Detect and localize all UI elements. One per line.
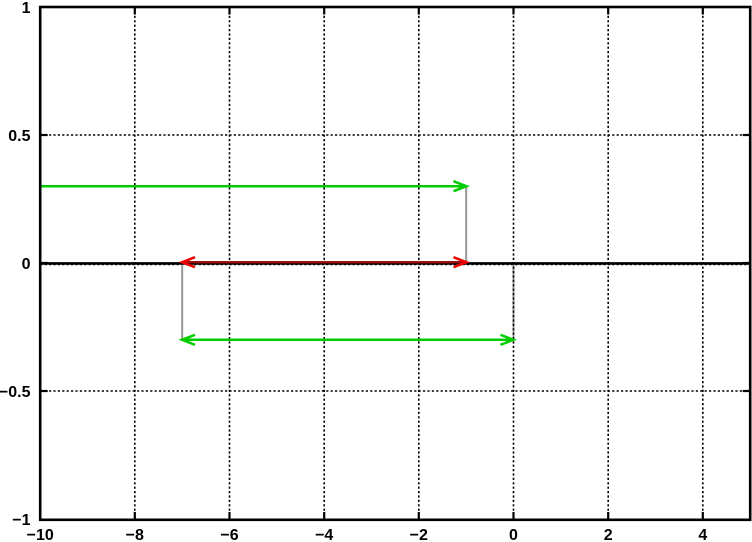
x tick bottom x=-2: [418, 512, 420, 520]
y tick right y=0.5: [743, 134, 751, 136]
gridline x=-8: [134, 7, 136, 520]
svg-text:−10: −10: [27, 527, 54, 542]
svg-text:−8: −8: [126, 527, 144, 542]
x tick bottom x=-4: [323, 512, 325, 520]
svg-text:1: 1: [22, 0, 31, 17]
gridline x=-4: [323, 7, 325, 520]
x tick top x=4: [702, 7, 704, 15]
green arrowhead right at (0,-0.3): [501, 335, 514, 345]
red arrowhead right at (-1,0): [454, 257, 467, 267]
svg-text:−4: −4: [315, 527, 333, 542]
green arrow shaft y=0.3 from x=-10 to x=-1: [40, 185, 464, 188]
gridline x=0 (over gray): [513, 7, 515, 520]
green arrow shaft y=-0.3 from x=-7 to x=0: [182, 339, 513, 342]
x tick top x=0: [512, 7, 514, 15]
gridline x=-6: [229, 7, 231, 520]
svg-text:−6: −6: [220, 527, 238, 542]
gridline y=0.5: [40, 134, 750, 136]
x-axis zero line y=0: [40, 262, 750, 265]
svg-text:0.5: 0.5: [8, 128, 30, 145]
x tick top x=-4: [323, 7, 325, 15]
y tick right y=0: [743, 262, 751, 264]
x tick top x=-6: [228, 7, 230, 15]
x tick bottom x=4: [702, 512, 704, 520]
gridline y=0: [40, 264, 750, 266]
gridline x=4: [702, 7, 704, 520]
svg-text:−2: −2: [410, 527, 428, 542]
svg-text:0: 0: [22, 256, 31, 273]
y tick right y=-0.5: [743, 390, 751, 392]
svg-text:−0.5: −0.5: [0, 384, 31, 401]
x tick top x=-8: [134, 7, 136, 15]
x tick top x=2: [607, 7, 609, 15]
green arrowhead left at (-7,-0.3): [182, 335, 195, 345]
x tick top x=-2: [418, 7, 420, 15]
gridline x=2: [607, 7, 609, 520]
gray connector at x=-7 from y=0 to y=-0.3: [181, 263, 183, 340]
svg-text:0: 0: [509, 527, 518, 542]
gridline x=-2: [418, 7, 420, 520]
x tick bottom x=-8: [134, 512, 136, 520]
x tick bottom x=-6: [228, 512, 230, 520]
gridline y=-0.5: [40, 390, 750, 392]
gray connector at x=-1 from y=0.3 to y=0: [465, 186, 467, 263]
red arrow shaft y=0 from x=-7 to x=-1: [183, 261, 466, 263]
x tick bottom x=2: [607, 512, 609, 520]
y tick left y=0: [40, 262, 48, 264]
y tick left y=0.5: [40, 134, 48, 136]
green arrowhead right at (-1,0.3): [454, 181, 467, 191]
y tick left y=-0.5: [40, 390, 48, 392]
x tick bottom x=0: [512, 512, 514, 520]
svg-text:2: 2: [604, 527, 613, 542]
red arrowhead left at (-7,0): [182, 257, 195, 267]
gray connector at x=0 from y=0 to y=-0.3: [513, 263, 515, 340]
svg-text:4: 4: [698, 527, 707, 542]
